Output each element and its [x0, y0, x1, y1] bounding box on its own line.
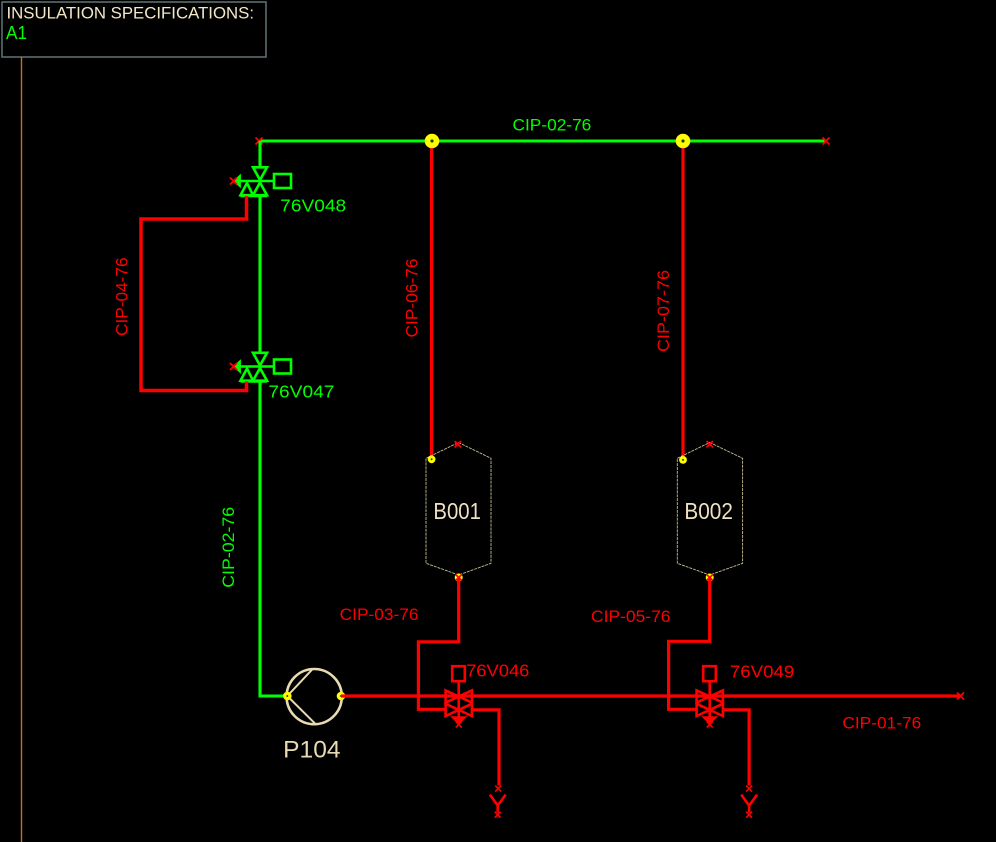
svg-text:76V048: 76V048	[280, 196, 346, 216]
node X drain tip 76V049	[707, 722, 713, 728]
svg-text:76V046: 76V046	[466, 661, 529, 681]
svg-text:76V049: 76V049	[730, 662, 794, 682]
svg-text:CIP-02-76: CIP-02-76	[513, 116, 592, 135]
wire green vertical valve to pump	[260, 382, 287, 697]
node X drain bottom right	[746, 812, 752, 818]
node X vent B002	[707, 441, 713, 447]
svg-text:P104: P104	[283, 737, 340, 764]
node X drain top	[495, 786, 501, 792]
junction dot B001 outlet	[455, 574, 463, 582]
valve 76V048	[233, 167, 291, 196]
drain funnel Y right	[741, 795, 757, 813]
vessel B001	[426, 443, 491, 576]
vessel B002	[677, 443, 742, 576]
wire green vertical header to valve 76V048	[258, 141, 261, 167]
wire 76V049 drain	[723, 710, 749, 786]
wire 76V046 drain	[472, 710, 499, 786]
node X right end of header	[823, 138, 830, 145]
valve 76V046	[446, 666, 472, 725]
svg-text:76V047: 76V047	[268, 382, 334, 402]
node X end of CIP-01-76	[957, 693, 964, 700]
svg-text:B001: B001	[433, 498, 481, 524]
junction dot header B002 branch	[676, 134, 691, 149]
pump P104	[287, 669, 342, 724]
wire CIP-01-76 main red line	[341, 694, 961, 697]
orange border line	[21, 57, 23, 842]
wire CIP-03-76 B001 outlet to valve 76V046	[418, 578, 458, 710]
junction dot B002 outlet	[706, 574, 714, 582]
valve 76V047	[233, 353, 291, 382]
wire CIP-05-76 B002 outlet to valve 76V049	[669, 578, 710, 710]
junction dot pump inlet	[283, 692, 292, 701]
junction dot pump outlet	[337, 692, 346, 701]
node X vent B001	[455, 441, 461, 447]
drain funnel Y left	[490, 795, 506, 813]
node X B002 outlet	[707, 575, 713, 581]
node X drain top right	[746, 786, 752, 792]
svg-text:CIP-02-76: CIP-02-76	[219, 507, 238, 588]
node X left end of header	[256, 138, 263, 145]
wire CIP-02-76 header green line	[259, 139, 826, 142]
node X B001 outlet	[456, 575, 462, 581]
node X drain tip 76V046	[456, 722, 462, 728]
wire CIP-07-76 red drop to B002	[681, 141, 684, 459]
wire CIP-06-76 red drop to B001	[430, 141, 433, 458]
wire CIP-04-76 red recirculation loop	[141, 196, 247, 391]
node X capped port 76V047	[230, 363, 237, 370]
svg-text:B002: B002	[684, 498, 733, 524]
svg-text:INSULATION SPECIFICATIONS:: INSULATION SPECIFICATIONS:	[7, 4, 255, 22]
svg-text:CIP-06-76: CIP-06-76	[403, 259, 422, 338]
junction dot header B001 branch	[425, 134, 440, 149]
svg-text:CIP-03-76: CIP-03-76	[340, 605, 419, 624]
junction dot B002 inlet	[679, 456, 687, 464]
valve 76V049	[697, 666, 723, 725]
svg-text:CIP-01-76: CIP-01-76	[842, 714, 921, 733]
svg-text:CIP-04-76: CIP-04-76	[113, 257, 132, 336]
junction dot B001 inlet	[428, 455, 436, 463]
wire green vertical between valves	[258, 196, 261, 353]
title box	[2, 2, 266, 57]
svg-text:CIP-07-76: CIP-07-76	[654, 270, 673, 352]
node X capped port 76V048	[230, 178, 237, 185]
svg-text:CIP-05-76: CIP-05-76	[591, 607, 671, 626]
svg-text:A1: A1	[6, 22, 27, 43]
node X drain bottom	[495, 812, 501, 818]
